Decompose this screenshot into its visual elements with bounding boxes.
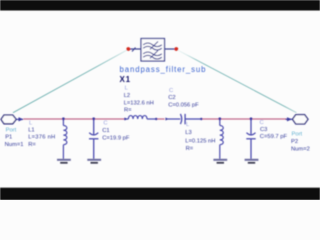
subcircuit X1 bandpass_filter_sub bbox=[130, 39, 176, 62]
wire: P1 to X1 pin 1 (diagonal) bbox=[13, 50, 128, 113]
wire: X1 pin 2 to P2 (diagonal) bbox=[177, 50, 297, 113]
svg-text:C=59.7 pF: C=59.7 pF bbox=[260, 134, 288, 140]
svg-text:C: C bbox=[103, 120, 107, 126]
svg-text:L=376 nH: L=376 nH bbox=[28, 135, 55, 141]
ground (under L1) bbox=[57, 160, 71, 163]
pin 2 of X1 (red) bbox=[174, 47, 178, 51]
svg-text:C: C bbox=[169, 88, 173, 94]
svg-text:L1: L1 bbox=[28, 127, 34, 133]
svg-text:C2: C2 bbox=[168, 95, 175, 101]
svg-text:C3: C3 bbox=[260, 127, 267, 133]
svg-text:P2: P2 bbox=[291, 139, 298, 145]
svg-text:R=: R= bbox=[28, 142, 36, 148]
wire-end arrow at L2 left bbox=[124, 118, 127, 121]
svg-text:L=0.125 nH: L=0.125 nH bbox=[185, 138, 215, 144]
inductor L1 (shunt) bbox=[63, 119, 66, 159]
junction dot at C2 right lead bbox=[200, 118, 202, 120]
svg-text:L2: L2 bbox=[124, 93, 130, 99]
svg-text:C: C bbox=[260, 120, 264, 126]
junction dot at L2 right lead bbox=[155, 118, 157, 120]
svg-text:R=: R= bbox=[186, 146, 194, 152]
svg-text:L3: L3 bbox=[185, 130, 191, 136]
wire: main line mid section bbox=[156, 118, 165, 120]
top letterbox bar bbox=[0, 0, 320, 11]
capacitor C2 (series) bbox=[167, 114, 202, 124]
pin 1 of X1 (red) bbox=[126, 47, 130, 51]
inductor L3 (shunt) bbox=[220, 119, 223, 159]
label C2 bbox=[168, 88, 199, 108]
svg-text:Num=1: Num=1 bbox=[5, 142, 24, 148]
svg-text:L: L bbox=[29, 120, 33, 126]
svg-text:R=: R= bbox=[124, 108, 132, 114]
bottom letterbox bar bbox=[0, 188, 320, 200]
port P2 bbox=[286, 115, 310, 153]
wire-end arrow at C2 left bbox=[165, 118, 168, 121]
wire: main line right section bbox=[202, 118, 287, 120]
label L3 bbox=[185, 122, 215, 152]
label C3 bbox=[260, 120, 288, 140]
svg-text:Num=2: Num=2 bbox=[291, 147, 310, 153]
ground (under C3) bbox=[245, 160, 259, 163]
capacitor C3 (shunt) bbox=[246, 119, 255, 159]
wire: main line left section bbox=[23, 118, 124, 120]
junction dot at C3 bbox=[250, 117, 253, 120]
ground (under C1) bbox=[87, 160, 101, 163]
svg-text:C=19.9 pF: C=19.9 pF bbox=[102, 135, 130, 141]
ground (under L3) bbox=[213, 160, 227, 163]
inductor L2 (series) bbox=[124, 116, 156, 119]
label C1 bbox=[102, 120, 130, 141]
svg-text:bandpass_filter_sub: bandpass_filter_sub bbox=[120, 65, 207, 74]
svg-text:L: L bbox=[186, 122, 190, 128]
svg-text:X1: X1 bbox=[120, 75, 131, 84]
svg-text:L: L bbox=[125, 85, 129, 91]
svg-text:Port: Port bbox=[292, 131, 303, 137]
svg-text:P1: P1 bbox=[5, 135, 12, 141]
junction dot at C1 bbox=[92, 117, 95, 120]
svg-text:L=132.6 nH: L=132.6 nH bbox=[124, 100, 154, 106]
label L2 bbox=[124, 85, 154, 113]
svg-text:C1: C1 bbox=[102, 128, 109, 134]
port P1 bbox=[1, 115, 24, 148]
label L1 bbox=[28, 120, 55, 148]
svg-text:C=0.056 pF: C=0.056 pF bbox=[168, 102, 199, 108]
junction dot at L3 bbox=[218, 117, 221, 120]
capacitor C1 (shunt) bbox=[89, 119, 98, 159]
svg-text:Port: Port bbox=[6, 127, 17, 133]
junction dot at L1 bbox=[62, 117, 65, 120]
